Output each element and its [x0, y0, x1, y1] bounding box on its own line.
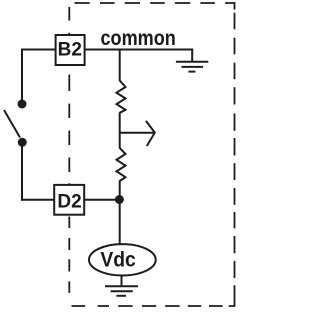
wire: between resistor halves — [119, 112, 121, 148]
ground (common, top right) — [176, 49, 208, 72]
wire: B2 to common/ground — [85, 49, 193, 51]
svg-text:common: common — [101, 26, 176, 50]
terminal block D2 — [54, 185, 84, 215]
potentiometer upper element (zigzag) — [117, 81, 126, 113]
svg-text:Vdc: Vdc — [100, 247, 136, 271]
ground (below Vdc) — [105, 275, 138, 296]
svg-text:B2: B2 — [58, 39, 82, 60]
switch contact dot (bottom) — [18, 138, 27, 147]
wire: switch vertical (top) — [21, 49, 23, 101]
dashed enclosure boundary (right edge) — [234, 2, 236, 306]
junction dot (D2 / pot / Vdc node) — [115, 195, 124, 204]
wire: potentiometer bottom to junction — [119, 181, 121, 200]
wire: junction to Vdc source — [119, 200, 121, 245]
switch contact dot (top) — [18, 100, 27, 109]
terminal block B2 — [56, 35, 85, 65]
wire: switch to D2 (horizontal) — [21, 199, 55, 201]
dashed enclosure boundary (left edge) — [68, 7, 70, 293]
dashed enclosure boundary (bottom edge) — [72, 305, 236, 307]
wire: D2 to junction — [85, 199, 120, 201]
wire: switch top to B2 — [21, 49, 56, 51]
voltage source Vdc — [89, 244, 156, 275]
dashed enclosure boundary (top edge) — [75, 2, 236, 4]
wire: switch vertical (bottom) — [21, 146, 23, 201]
wire: common to potentiometer top — [119, 49, 121, 82]
potentiometer wiper arrow — [120, 121, 155, 146]
switch blade (open) — [4, 110, 20, 138]
potentiometer lower element (zigzag) — [117, 148, 126, 181]
svg-text:D2: D2 — [57, 191, 81, 212]
